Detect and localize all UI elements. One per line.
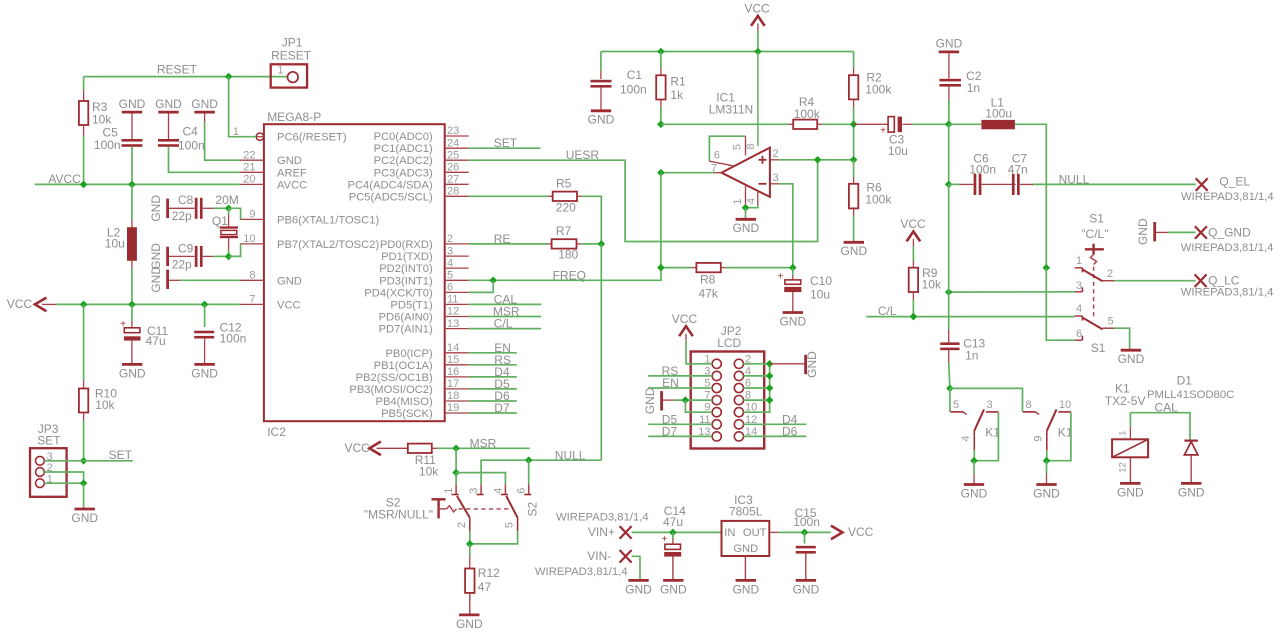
svg-text:WIREPAD3,81/1,4: WIREPAD3,81/1,4: [1181, 287, 1274, 299]
capacitor C15 100n: [793, 506, 820, 596]
svg-text:22p: 22p: [172, 257, 192, 271]
switch S1 actuator: [1085, 244, 1104, 319]
svg-text:12: 12: [1118, 462, 1129, 473]
svg-text:GND: GND: [191, 97, 218, 111]
net C/L wire: [866, 304, 1074, 318]
IC IC2 MEGA8-P body: [264, 110, 445, 439]
svg-text:3: 3: [1076, 280, 1082, 292]
svg-text:5: 5: [504, 522, 516, 528]
JP2 right bus stubs: [744, 375, 770, 377]
capacitor C10 10u polarized: [778, 268, 833, 329]
net D4 stub: [469, 365, 517, 379]
svg-text:100n: 100n: [94, 138, 121, 152]
svg-text:PC5(ADC5/SCL): PC5(ADC5/SCL): [349, 191, 433, 203]
svg-text:GND: GND: [149, 266, 163, 293]
svg-text:GND: GND: [149, 195, 163, 222]
relay contact K1b pin 8: [1023, 399, 1039, 415]
svg-text:220: 220: [556, 200, 576, 214]
switch S2 pin 3: [468, 484, 484, 494]
net D4 wire JP2 pin12: [744, 412, 807, 426]
ground symbol K1a: [961, 461, 988, 501]
svg-text:GND: GND: [805, 351, 819, 378]
switch S1 pin 2 wire to Q_LC: [1103, 268, 1196, 281]
net RS stub: [469, 353, 517, 367]
connector JP3 SET: [30, 422, 67, 497]
svg-text:IN: IN: [724, 527, 735, 539]
svg-text:GND: GND: [1117, 485, 1144, 499]
svg-text:VCC: VCC: [744, 2, 770, 16]
svg-text:VCC: VCC: [672, 312, 698, 326]
wire VCC row: [56, 303, 240, 305]
capacitor C9 22p: [149, 241, 229, 271]
svg-text:47u: 47u: [146, 334, 166, 348]
svg-text:WIREPAD3,81/1,4: WIREPAD3,81/1,4: [535, 566, 628, 578]
junction R1 bottom node: [657, 121, 665, 129]
switch S1 pin 1 and pole A: [1075, 255, 1103, 281]
svg-text:CAL: CAL: [1155, 401, 1179, 415]
switch S2 pin 5: [470, 518, 518, 544]
svg-text:D6: D6: [782, 425, 798, 439]
svg-text:1: 1: [277, 64, 283, 76]
net D5 wire JP2 pin11: [648, 412, 712, 426]
op-amp IC1 LM311N triangle: [722, 148, 770, 197]
switch S2 pin 4 and pole B: [492, 484, 517, 518]
svg-text:GND: GND: [840, 244, 867, 258]
net CAL stub: [469, 293, 541, 307]
svg-text:S2: S2: [526, 501, 540, 516]
net VCC arrow right: [831, 525, 874, 539]
svg-text:C9: C9: [178, 241, 194, 255]
net EN wire JP2 pin5: [648, 376, 712, 390]
svg-text:12: 12: [447, 306, 459, 318]
svg-text:3: 3: [987, 399, 993, 411]
svg-text:PD3(INT1): PD3(INT1): [379, 275, 433, 287]
svg-text:GND: GND: [660, 582, 687, 596]
svg-text:19: 19: [447, 402, 459, 414]
svg-text:8: 8: [1026, 399, 1032, 411]
svg-text:R8: R8: [700, 273, 716, 287]
svg-text:1: 1: [732, 198, 744, 204]
svg-text:PMLL41SOD80C: PMLL41SOD80C: [1147, 389, 1234, 401]
junction C/L R9: [910, 313, 918, 321]
svg-text:LM311N: LM311N: [709, 102, 753, 116]
svg-text:SET: SET: [109, 448, 133, 462]
resistor R6 100k: [849, 160, 892, 241]
wirepad Q_LC: [1181, 273, 1274, 298]
resistor R4 100k: [789, 95, 854, 129]
wire XTAL1 to pin 9: [229, 208, 241, 219]
svg-text:1n: 1n: [965, 349, 978, 363]
junction XTAL1 node: [225, 205, 233, 213]
relay contact K1a pin 5: [950, 399, 966, 415]
svg-text:22: 22: [243, 149, 255, 161]
svg-text:6: 6: [516, 488, 528, 494]
svg-text:GND: GND: [588, 113, 615, 127]
capacitor C12 100n: [191, 304, 246, 380]
junction S2 pole node: [452, 469, 460, 477]
wire RESET to IC2 pin1: [229, 77, 257, 137]
svg-text:RESET: RESET: [157, 63, 198, 77]
switch S2 pin 6: [516, 484, 532, 494]
wire NULL to S2 pin6: [528, 460, 530, 484]
wire VIN- to gnd: [625, 556, 652, 596]
switch S2 actuator: [432, 499, 512, 518]
JP2 pin circles: [698, 353, 757, 441]
svg-text:100n: 100n: [178, 138, 205, 152]
svg-text:PC4(ADC4/SDA): PC4(ADC4/SDA): [348, 179, 433, 191]
ground symbol K1b: [1033, 461, 1060, 501]
svg-text:Q_EL: Q_EL: [1219, 175, 1250, 189]
ground symbol at IC2 pin 22: [191, 97, 240, 160]
svg-text:24: 24: [447, 137, 459, 149]
svg-text:PB4(MISO): PB4(MISO): [375, 396, 432, 408]
svg-text:AVCC: AVCC: [48, 172, 81, 186]
IC1 balance loop pins 5,6: [709, 136, 757, 174]
svg-text:PD4(XCK/T0): PD4(XCK/T0): [364, 287, 433, 299]
svg-text:2: 2: [773, 148, 779, 160]
svg-text:4: 4: [746, 198, 758, 204]
net SET wire: [84, 448, 133, 462]
svg-text:47u: 47u: [663, 515, 683, 529]
svg-text:10u: 10u: [888, 144, 908, 158]
svg-text:14: 14: [447, 342, 459, 354]
svg-text:11: 11: [447, 294, 458, 306]
JP2 right gnd bus: [744, 364, 770, 412]
junction SET node: [80, 457, 88, 465]
svg-text:1: 1: [1076, 255, 1082, 267]
svg-text:GND: GND: [149, 243, 163, 270]
junction NULL-S2: [525, 456, 533, 464]
svg-text:VIN+: VIN+: [588, 525, 615, 539]
svg-text:26: 26: [447, 162, 459, 174]
svg-text:PC1(ADC1): PC1(ADC1): [374, 143, 433, 155]
net D6 wire JP2 pin14: [744, 425, 807, 439]
svg-text:GND: GND: [119, 97, 146, 111]
svg-text:EN: EN: [662, 376, 679, 390]
svg-text:10k: 10k: [92, 112, 112, 126]
svg-text:10u: 10u: [105, 237, 125, 251]
svg-text:C8: C8: [178, 193, 194, 207]
svg-text:4: 4: [447, 257, 453, 269]
svg-text:VCC: VCC: [7, 297, 33, 311]
svg-text:R1: R1: [670, 75, 686, 89]
svg-text:GND: GND: [456, 617, 483, 631]
capacitor C5 100n: [94, 97, 146, 185]
junction C10 node: [789, 264, 797, 272]
voltage regulator IC3 7805L: [722, 493, 770, 556]
svg-text:GND: GND: [643, 387, 657, 414]
svg-text:VIN-: VIN-: [587, 549, 611, 563]
net UESR wire pin25 to comparator: [469, 148, 818, 242]
svg-text:VCC: VCC: [345, 441, 371, 455]
junction pin3 row: [945, 288, 953, 296]
svg-text:10u: 10u: [810, 288, 830, 302]
svg-text:TX2-5V: TX2-5V: [1105, 394, 1146, 408]
diode D1 PMLL41SOD80C: [1147, 373, 1234, 499]
svg-text:5: 5: [447, 270, 453, 282]
svg-text:C/L: C/L: [494, 317, 513, 331]
junction C15 node: [801, 529, 809, 537]
svg-text:3: 3: [468, 488, 480, 494]
net D6 stub: [469, 389, 517, 403]
svg-text:PB7(XTAL2/TOSC2): PB7(XTAL2/TOSC2): [277, 239, 379, 251]
IC1 output pin 7 wire: [661, 172, 722, 174]
junction C14 node: [669, 529, 677, 537]
svg-text:21: 21: [243, 162, 255, 174]
resistor R5 220: [469, 177, 602, 244]
svg-text:GND: GND: [733, 543, 758, 555]
switch S1 pin 4 and pole B: [1075, 303, 1103, 329]
capacitor C7 47n: [982, 151, 1196, 195]
net CAL wire: [1130, 401, 1190, 441]
svg-text:"MSR/NULL": "MSR/NULL": [364, 508, 433, 522]
wire JP3 pin1: [44, 482, 83, 484]
svg-text:GND: GND: [1136, 218, 1150, 245]
IC2 pin 1 inversion bubble: [256, 133, 263, 140]
svg-text:UESR: UESR: [566, 148, 600, 162]
junction MSR node: [452, 445, 460, 453]
svg-text:S1: S1: [1091, 341, 1106, 355]
svg-text:13: 13: [447, 318, 459, 330]
svg-text:9: 9: [1032, 435, 1044, 441]
IC2 left pin names: [277, 132, 379, 312]
svg-text:PC0(ADC0): PC0(ADC0): [374, 131, 433, 143]
svg-text:GND: GND: [191, 366, 218, 380]
wire to S2 pins 1,4: [455, 473, 457, 485]
junction AVCC-R3: [80, 181, 88, 189]
svg-text:S1: S1: [1089, 212, 1104, 226]
resistor R12 47: [456, 544, 500, 631]
wire C13 column upper: [948, 184, 950, 330]
svg-text:C1: C1: [627, 68, 643, 82]
switch S1 pin 6: [1075, 328, 1083, 340]
svg-text:7805L: 7805L: [729, 504, 763, 518]
junction VCC-C12: [201, 301, 209, 309]
svg-text:OUT: OUT: [743, 527, 767, 539]
junction relay contact node: [946, 385, 954, 393]
resistor R2 100k: [849, 52, 892, 160]
svg-text:6: 6: [714, 150, 720, 162]
svg-text:100k: 100k: [865, 83, 892, 97]
svg-text:PC3(ADC3): PC3(ADC3): [374, 167, 433, 179]
junction VCC rail R1: [657, 48, 665, 56]
svg-text:SET: SET: [494, 136, 518, 150]
svg-text:PD5(T1): PD5(T1): [390, 299, 433, 311]
IC1 pins 1,4 ground: [732, 185, 758, 208]
junction NULL node: [945, 181, 953, 189]
svg-text:15: 15: [447, 354, 459, 366]
svg-text:GND: GND: [732, 221, 759, 235]
svg-text:3: 3: [773, 172, 779, 184]
svg-text:10k: 10k: [95, 398, 115, 412]
resistor R1 1k: [656, 52, 686, 125]
svg-text:R12: R12: [478, 566, 500, 580]
connector JP1 RESET: [271, 36, 312, 88]
wire L1 column to S1 pin 6: [1046, 268, 1074, 340]
svg-text:K1: K1: [985, 425, 1000, 439]
svg-text:GND: GND: [936, 37, 963, 51]
svg-text:D1: D1: [1177, 373, 1193, 387]
junction +input UESR: [814, 156, 822, 164]
wire XTAL2 to pin 10: [229, 244, 241, 257]
svg-text:27: 27: [447, 174, 459, 186]
switch S1 pin 5 to ground: [1103, 316, 1145, 367]
svg-text:PB2(SS/OC1B): PB2(SS/OC1B): [356, 372, 433, 384]
resistor R11 10k: [408, 444, 456, 479]
svg-text:R5: R5: [556, 177, 572, 191]
svg-text:+: +: [662, 534, 668, 545]
wire R4 row: [661, 123, 789, 125]
svg-text:RESET: RESET: [271, 48, 312, 62]
inductor L1 100u: [949, 96, 1047, 268]
svg-text:Q_GND: Q_GND: [1208, 225, 1251, 239]
junction +input/R2/R6 node: [850, 156, 858, 164]
svg-text:18: 18: [447, 390, 459, 402]
resistor R3 10k: [79, 77, 112, 185]
svg-text:4: 4: [960, 435, 972, 441]
net VCC arrow top: [744, 2, 770, 31]
svg-text:2: 2: [1107, 268, 1113, 280]
svg-text:6: 6: [1076, 328, 1082, 340]
svg-text:23: 23: [447, 125, 459, 137]
svg-text:2: 2: [447, 233, 453, 245]
svg-text:8: 8: [249, 270, 255, 282]
wire FREQ to pin 6: [469, 280, 494, 292]
svg-text:GND: GND: [277, 275, 302, 287]
relay contact K1b link wires: [1047, 412, 1071, 461]
svg-text:16: 16: [447, 366, 459, 378]
svg-text:17: 17: [447, 378, 459, 390]
svg-text:100k: 100k: [794, 107, 821, 121]
relay contact K1b pin 10: [1058, 399, 1071, 412]
svg-text:AVCC: AVCC: [277, 179, 307, 191]
crystal Q1 20M: [212, 193, 239, 257]
svg-text:C/L: C/L: [878, 304, 897, 318]
junction JP2 gnd left: [682, 396, 690, 404]
svg-text:100n: 100n: [220, 332, 247, 346]
svg-text:8: 8: [745, 143, 757, 149]
switch S2 pin 2: [456, 518, 470, 544]
junction VCC-L2-C11: [128, 301, 136, 309]
junction output node: [657, 169, 665, 177]
svg-text:VCC: VCC: [848, 525, 874, 539]
net AVCC wire: [35, 172, 240, 186]
net RE / resistor R7 180: [469, 232, 547, 246]
net D7 stub: [469, 401, 517, 415]
svg-text:PB0(ICP): PB0(ICP): [385, 348, 433, 360]
net MSR stub: [469, 305, 541, 319]
junction IC1 gnd: [742, 204, 750, 212]
svg-text:1k: 1k: [670, 88, 684, 102]
IC1 -input pin 3: [759, 172, 793, 268]
svg-text:100n: 100n: [793, 515, 820, 529]
svg-text:100k: 100k: [865, 193, 892, 207]
switch S2 pin 1 and pole A: [443, 484, 470, 518]
svg-text:K1: K1: [1058, 425, 1073, 439]
wirepad Q_EL: [1181, 175, 1274, 203]
svg-text:47: 47: [478, 580, 492, 594]
svg-text:7: 7: [249, 294, 255, 306]
svg-text:GND: GND: [1033, 486, 1060, 500]
inductor L2 10u: [105, 184, 137, 304]
wirepad VIN-: [535, 549, 632, 578]
resistor R9 10k: [909, 246, 942, 317]
wire R1 column to R8 row: [660, 173, 662, 268]
ground symbol above C2: [936, 37, 963, 79]
junction XTAL2 node: [225, 253, 233, 261]
net D5 stub: [469, 377, 517, 391]
svg-text:NULL: NULL: [1059, 172, 1090, 186]
net MSR wire: [456, 436, 530, 450]
resistor R8 47k: [661, 263, 793, 300]
net EN stub: [469, 341, 517, 355]
svg-text:2: 2: [456, 522, 468, 528]
IC2 right pin stubs and numbers: [445, 125, 469, 414]
svg-text:PD2(INT0): PD2(INT0): [379, 263, 433, 275]
wire to contact pins 5 and 8: [950, 388, 1023, 412]
junction AVCC-C5-L2: [128, 181, 136, 189]
svg-text:AREF: AREF: [277, 167, 307, 179]
svg-text:PD0(RXD): PD0(RXD): [380, 239, 433, 251]
junction FREQ branch: [489, 277, 497, 285]
IC2 right pin names: [348, 131, 433, 420]
junction K1b gnd node: [1043, 457, 1051, 465]
junction RESET: [225, 73, 233, 81]
svg-text:PB5(SCK): PB5(SCK): [381, 408, 433, 420]
svg-text:9: 9: [249, 209, 255, 221]
svg-text:4: 4: [1076, 303, 1082, 315]
svg-text:+: +: [880, 126, 886, 137]
wire NULL column: [600, 244, 602, 460]
svg-text:5: 5: [953, 399, 959, 411]
svg-text:WIREPAD3,81/1,4: WIREPAD3,81/1,4: [1181, 191, 1274, 203]
junction C2/L1 node: [945, 121, 953, 129]
net C/L stub: [469, 317, 541, 331]
svg-text:GND: GND: [961, 486, 988, 500]
IC1 pin 8 V+ wire: [757, 52, 759, 147]
svg-text:Q1: Q1: [212, 214, 228, 228]
svg-text:1n: 1n: [967, 81, 980, 95]
junction VCC-R10: [80, 301, 88, 309]
svg-text:WIREPAD3,81/1,4: WIREPAD3,81/1,4: [1181, 242, 1274, 254]
svg-text:22p: 22p: [172, 209, 192, 223]
svg-text:PB1(OC1A): PB1(OC1A): [374, 360, 433, 372]
svg-text:PD6(AIN0): PD6(AIN0): [379, 312, 433, 324]
resistor R10 10k: [79, 304, 117, 460]
net VCC arrow R9: [900, 217, 926, 246]
junction R4/C3 node: [850, 121, 858, 129]
relay contact K1a pin 3: [986, 399, 999, 412]
svg-text:1: 1: [443, 488, 455, 494]
svg-text:6: 6: [447, 282, 453, 294]
svg-text:3: 3: [447, 245, 453, 257]
svg-text:GND: GND: [119, 366, 146, 380]
wire C2 column down to NULL row: [948, 124, 950, 184]
svg-text:C4: C4: [183, 125, 199, 139]
net VCC arrow JP2: [672, 312, 698, 341]
svg-text:RE: RE: [494, 232, 511, 246]
svg-text:28: 28: [447, 186, 459, 198]
svg-text:GND: GND: [779, 314, 806, 328]
svg-text:GND: GND: [793, 582, 820, 596]
relay contact K1a arm pin 4: [960, 409, 984, 450]
wire VCC top rail: [757, 31, 759, 52]
svg-text:100u: 100u: [985, 106, 1012, 120]
capacitor C4 100n: [155, 97, 240, 173]
ground symbol IC1: [732, 208, 759, 236]
svg-text:"C/L": "C/L": [1081, 227, 1108, 241]
svg-text:10k: 10k: [922, 278, 942, 292]
